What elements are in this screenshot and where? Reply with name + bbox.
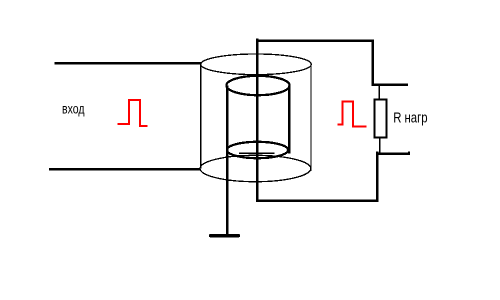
svg-text:R нагр: R нагр bbox=[393, 109, 427, 126]
wire: output loop left vertical (through cylinder) bbox=[256, 39, 259, 202]
label: вход (input) bbox=[62, 100, 85, 116]
resistor R нагр (load) body bbox=[374, 99, 386, 137]
wire: output loop top bbox=[256, 39, 374, 42]
wire: output loop bottom bbox=[256, 199, 379, 202]
label: R нагр bbox=[393, 109, 427, 126]
wire: output loop right lower vertical bbox=[376, 152, 379, 203]
wire: top input conductor bbox=[54, 62, 201, 65]
inner cylinder (center electrode), thick outline bbox=[226, 76, 289, 158]
wire: output loop right upper vertical bbox=[372, 39, 375, 85]
wire: inner-cylinder left side continuing down to ground bbox=[226, 86, 229, 234]
output pulse waveform (red) bbox=[338, 102, 367, 127]
wire: lower stub from resistor terminal bbox=[376, 152, 410, 155]
input pulse waveform (red) bbox=[118, 100, 148, 126]
wire: bottom input conductor bbox=[49, 168, 200, 171]
svg-text:вход: вход bbox=[62, 100, 85, 116]
wire: upper stub to resistor terminal bbox=[372, 83, 409, 86]
outer cylinder (shield electrode), thin outline bbox=[200, 54, 311, 182]
wire: thin lead from resistor bottom to lower stub bbox=[379, 138, 381, 155]
ground symbol bbox=[209, 234, 240, 238]
wire: thin lead from upper stub to resistor R1 top bbox=[378, 85, 380, 100]
